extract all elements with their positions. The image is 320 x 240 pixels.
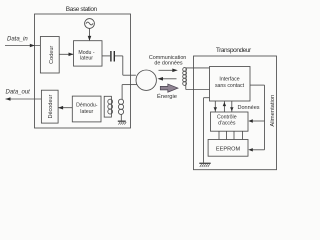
svg-text:d'accès: d'accès <box>218 120 236 126</box>
svg-text:Codeur: Codeur <box>49 46 55 64</box>
svg-text:Data_out: Data_out <box>6 89 31 95</box>
svg-text:Alimentation: Alimentation <box>270 95 276 127</box>
svg-text:de données: de données <box>154 61 182 67</box>
svg-text:lateur: lateur <box>80 56 93 62</box>
svg-text:lateur: lateur <box>80 109 93 115</box>
svg-text:Démodu-: Démodu- <box>76 103 98 109</box>
svg-text:Transpondeur: Transpondeur <box>216 47 252 54</box>
svg-text:Données: Données <box>238 105 260 111</box>
svg-text:Data_in: Data_in <box>7 37 28 43</box>
svg-text:Décodeur: Décodeur <box>48 95 54 119</box>
svg-text:EEPROM: EEPROM <box>216 147 241 153</box>
svg-text:Interface: Interface <box>219 77 239 83</box>
svg-text:Base station: Base station <box>66 6 98 13</box>
svg-text:sans contact: sans contact <box>215 83 245 89</box>
svg-text:Énergie: Énergie <box>157 93 177 100</box>
